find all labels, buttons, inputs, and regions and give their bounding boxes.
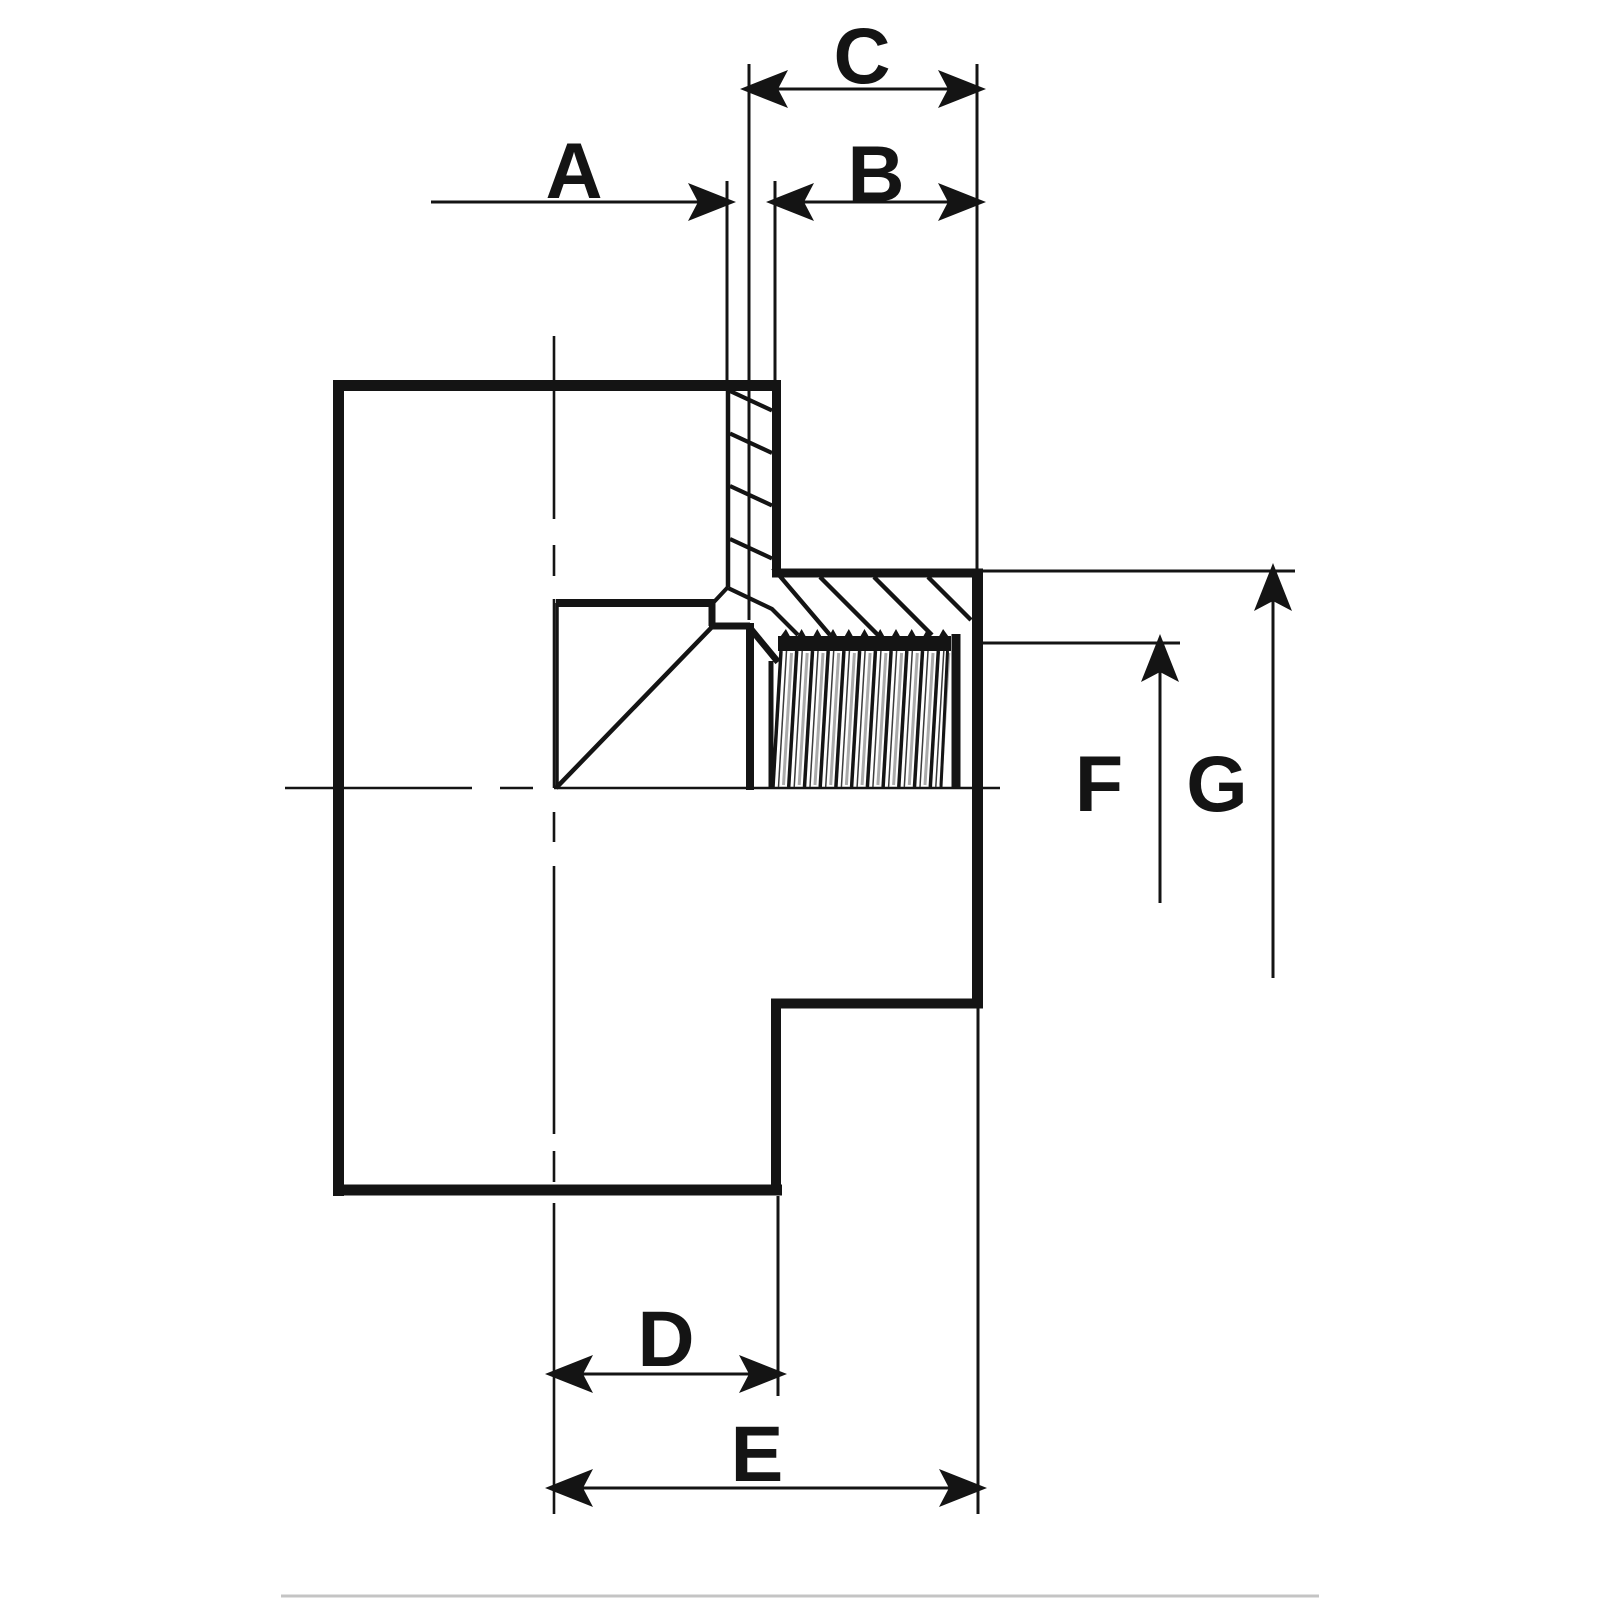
hatch wall section xyxy=(730,391,772,559)
shoulder step xyxy=(772,569,983,578)
svg-text:C: C xyxy=(833,11,890,100)
socket bore xyxy=(556,388,956,790)
thread end wall xyxy=(952,634,961,788)
thread left cap xyxy=(769,661,774,788)
centerline horizontal xyxy=(285,787,1000,790)
dimension C xyxy=(749,64,977,620)
top edge xyxy=(333,380,781,391)
reference G xyxy=(983,571,1295,978)
cone diagonal xyxy=(556,627,712,788)
svg-text:D: D xyxy=(637,1294,694,1383)
svg-text:E: E xyxy=(731,1409,784,1498)
svg-text:A: A xyxy=(545,126,602,215)
reference F xyxy=(983,643,1180,903)
dimension A xyxy=(431,181,727,385)
top-right edge xyxy=(772,380,781,578)
hatch band section xyxy=(773,568,971,635)
recess wall xyxy=(746,623,754,790)
bore step horizontal xyxy=(709,623,750,630)
apex diagonal left xyxy=(713,587,728,603)
apex diagonal right xyxy=(728,588,798,635)
thread chamfer xyxy=(750,628,778,662)
svg-text:F: F xyxy=(1075,739,1123,828)
bottom edge xyxy=(333,1185,782,1196)
body outline xyxy=(333,380,983,1196)
svg-text:B: B xyxy=(847,129,904,218)
bore left cap xyxy=(555,603,559,788)
thread lines xyxy=(773,651,949,787)
thread crest xyxy=(778,629,951,651)
dimension E xyxy=(554,1008,978,1514)
dimension B xyxy=(775,181,977,380)
wall inner line xyxy=(726,388,731,587)
bottom step horizontal xyxy=(771,999,983,1009)
dimension D xyxy=(554,1196,778,1396)
bore top line xyxy=(556,599,712,607)
bottom gray line xyxy=(281,1595,1319,1598)
bottom step vertical xyxy=(771,999,781,1196)
bore step vertical xyxy=(709,599,716,626)
svg-text:G: G xyxy=(1186,739,1247,828)
right edge xyxy=(972,569,983,1009)
centerline vertical xyxy=(553,336,556,1514)
left edge xyxy=(333,380,344,1196)
